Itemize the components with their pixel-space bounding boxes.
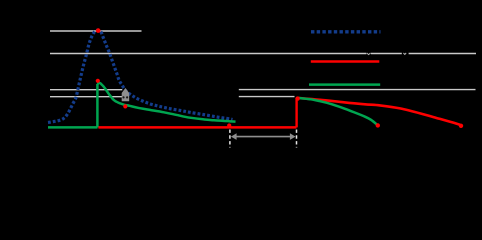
blue dotted stimulus curve <box>48 30 233 122</box>
gray up-arrow symbol <box>122 88 130 101</box>
text notch 1 on long line <box>366 52 370 55</box>
dashed vertical marker left <box>229 130 231 148</box>
reference line A right segment <box>239 89 476 91</box>
red reward baseline <box>98 126 296 129</box>
red step up at second event <box>295 98 297 127</box>
red marker at end of green decay 1 <box>227 123 231 127</box>
red marker at second step top <box>295 96 299 100</box>
red marker at end of red decay 2 <box>459 124 463 128</box>
red decay curve 2 <box>298 98 461 125</box>
red marker at end of green decay 2 <box>376 123 380 127</box>
reference line peak level <box>50 30 142 32</box>
dashed vertical marker right <box>296 130 298 148</box>
green value decay curve 1 <box>97 83 235 122</box>
reference line B right segment <box>239 96 295 98</box>
red marker below arrow <box>123 104 127 108</box>
green decay curve 2 <box>298 98 378 125</box>
reference line B left segment <box>50 96 122 98</box>
red marker at blue peak <box>96 28 101 33</box>
green value baseline <box>48 126 98 129</box>
reference line A left segment <box>50 89 122 91</box>
interval double arrow <box>231 133 296 140</box>
red marker at green step top <box>96 79 100 83</box>
text notch 2 on long line <box>402 52 409 55</box>
reference line long tau level <box>50 53 476 55</box>
legend red line <box>311 60 380 63</box>
legend green line <box>309 83 380 86</box>
green value step up <box>96 84 99 127</box>
legend blue dotted line <box>311 30 381 33</box>
